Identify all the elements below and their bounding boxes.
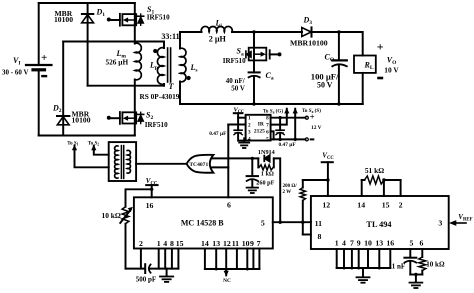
svg-text:1: 1	[157, 239, 161, 248]
label battery -	[41, 75, 47, 77]
power VCC (TL494 pin12)	[322, 162, 333, 196]
node: 260pF junction	[251, 157, 254, 160]
svg-text:10100: 10100	[54, 15, 73, 24]
svg-text:4: 4	[342, 238, 346, 247]
node: VCC branch	[150, 188, 153, 191]
svg-text:9: 9	[357, 238, 361, 247]
wire To S2 arrow	[91, 145, 108, 155]
svg-text:10 kΩ: 10 kΩ	[102, 211, 121, 220]
wire NC arrow	[224, 269, 229, 276]
ground (1nF/10k)	[410, 275, 423, 289]
svg-text:16: 16	[146, 201, 154, 210]
svg-text:3: 3	[248, 130, 251, 136]
svg-text:10: 10	[364, 238, 372, 247]
svg-text:To S1: To S1	[67, 142, 78, 147]
svg-text:0.47 µF: 0.47 µF	[279, 142, 297, 148]
svg-text:10: 10	[242, 239, 250, 248]
svg-text:+: +	[310, 111, 315, 121]
capacitor 1nF	[404, 249, 416, 275]
inductor Lm 526uH	[135, 43, 142, 80]
wire NC bus	[205, 268, 260, 270]
node: Sa source net	[294, 138, 297, 141]
wire MC pin2 stub	[140, 249, 142, 269]
wire top rail	[39, 2, 135, 4]
node: Ls polarity dot	[187, 76, 191, 80]
svg-text:2 µH: 2 µH	[209, 35, 227, 44]
wire MC pins 14-7 stubs	[205, 249, 260, 270]
ground (260pF)	[247, 188, 258, 193]
op-amp U4 TL494 PWM	[311, 196, 449, 249]
svg-text:+: +	[377, 40, 384, 54]
capacitor Co 100uF/50V	[332, 32, 347, 104]
svg-text:5: 5	[266, 136, 269, 142]
svg-text:+: +	[41, 52, 47, 64]
svg-text:1N914: 1N914	[258, 149, 275, 156]
svg-text:14: 14	[201, 239, 209, 248]
capacitor 0.47uF bypass	[234, 130, 242, 135]
wire 500pF left lead	[126, 268, 145, 270]
svg-text:4: 4	[163, 239, 167, 248]
label - output	[377, 77, 383, 80]
diode 1N914	[264, 155, 269, 161]
svg-text:15: 15	[176, 239, 184, 248]
svg-text:12: 12	[322, 201, 330, 210]
wire MC pin5 to TL494 pins 11/8	[273, 221, 311, 223]
svg-text:7: 7	[266, 123, 269, 129]
wire output bottom rail	[180, 103, 363, 105]
wire D3 to output	[312, 32, 363, 56]
resistor 1k	[258, 158, 274, 170]
wire IR2125 IN / pin6 bus	[227, 125, 229, 198]
battery VI 30-60V	[26, 3, 52, 136]
resistor 10k (TL494 pin6)	[419, 249, 426, 275]
resistor 10k pot	[120, 207, 133, 224]
svg-text:1: 1	[335, 238, 339, 247]
resistor 200ohm 2W	[300, 180, 305, 235]
wire node A (S1 source / Lp top)	[63, 41, 164, 43]
wire TL pins 1,4,7,9,10,13,16 stubs	[337, 249, 391, 268]
svg-text:1 kΩ: 1 kΩ	[261, 171, 274, 178]
gate-drive transformer box	[109, 142, 136, 181]
transistor S2 IRF510	[107, 112, 144, 124]
transistor S1 IRF510	[107, 14, 144, 26]
wire VCC to pin1	[238, 117, 246, 119]
transistor Sa IRF510	[253, 32, 255, 72]
svg-text:12: 12	[223, 239, 231, 248]
wire Li to D3	[232, 31, 302, 33]
svg-text:6: 6	[420, 238, 424, 247]
svg-text:RS 0P-43019: RS 0P-43019	[140, 92, 180, 101]
svg-text:2125: 2125	[254, 128, 265, 134]
wire S1/Lm/S2 column	[134, 3, 136, 44]
svg-text:NC: NC	[223, 278, 231, 284]
svg-text:12 V: 12 V	[311, 125, 322, 131]
wire left vertical	[62, 42, 64, 136]
wire network to TL494 outputs	[274, 158, 280, 222]
svg-text:16: 16	[386, 238, 394, 247]
svg-text:6: 6	[266, 130, 269, 136]
resistor 51k	[362, 176, 401, 196]
wire pin8 to +12V	[271, 117, 306, 119]
op-amp U TC4071 buffer gate	[187, 155, 214, 173]
power VCC (IR2125)	[234, 113, 243, 130]
svg-text:IR: IR	[258, 121, 265, 127]
wire pin6 tie	[271, 131, 274, 139]
svg-text:10 kΩ: 10 kΩ	[426, 261, 445, 269]
wire to Sa source	[293, 108, 298, 139]
svg-text:50 V: 50 V	[231, 85, 245, 93]
svg-text:8: 8	[170, 239, 174, 248]
svg-text:200 Ω/: 200 Ω/	[283, 184, 298, 189]
svg-text:1: 1	[248, 116, 251, 122]
gate-drive transformer secondary	[127, 150, 130, 173]
svg-text:To S2: To S2	[88, 142, 99, 147]
wire VCC to 10k pot	[126, 189, 152, 207]
node: bootstrap top	[278, 116, 281, 119]
wire OR gate input B	[212, 166, 228, 168]
svg-text:2: 2	[248, 123, 251, 129]
node: bootstrap bottom	[278, 138, 281, 141]
svg-text:14: 14	[357, 201, 365, 210]
svg-text:10 V: 10 V	[384, 66, 399, 75]
svg-text:IRF510: IRF510	[145, 121, 168, 129]
node: Co top junction	[337, 30, 340, 33]
node: Lp polarity dot	[153, 49, 157, 53]
svg-text:8: 8	[266, 116, 269, 122]
svg-text:5: 5	[261, 218, 265, 227]
svg-text:MBR10100: MBR10100	[290, 39, 328, 48]
svg-text:1 nF: 1 nF	[392, 262, 405, 270]
svg-text:30 - 60 V: 30 - 60 V	[2, 69, 29, 77]
node: Ca bottom junction	[252, 102, 255, 105]
svg-text:13: 13	[375, 238, 383, 247]
svg-text:10100: 10100	[72, 116, 91, 125]
ground (500pF)	[160, 269, 173, 282]
svg-text:50 V: 50 V	[317, 81, 333, 90]
diode D2 MBR10100	[57, 116, 69, 125]
capacitor 260pF	[247, 158, 258, 186]
svg-text:2 W: 2 W	[282, 190, 291, 195]
wire pot to pin2 line	[125, 224, 127, 269]
wire TL ground bus	[337, 267, 391, 269]
gate-drive transformer core	[120, 146, 122, 179]
svg-text:15: 15	[382, 201, 390, 210]
wire MC pins 1,4,8,15 stubs	[159, 249, 179, 269]
svg-text:11: 11	[315, 219, 322, 228]
wire pin7 to Sa gate	[271, 108, 290, 125]
wire OR gate input A	[211, 157, 258, 159]
ground (TL494)	[357, 268, 370, 283]
svg-text:260 pF: 260 pF	[256, 180, 274, 187]
wire bottom power rail	[39, 135, 135, 137]
diode D3 MBR10100	[302, 27, 312, 36]
label - 12V	[310, 138, 315, 140]
wire 200ohm to VCC	[303, 179, 328, 181]
svg-text:8: 8	[318, 232, 322, 241]
svg-text:500 pF: 500 pF	[136, 275, 156, 283]
wire pin4 to ground	[244, 138, 245, 142]
inductor Li 2uH	[201, 26, 232, 32]
svg-text:11: 11	[232, 239, 239, 248]
svg-text:2: 2	[399, 201, 403, 210]
svg-text:526 µH: 526 µH	[106, 57, 129, 66]
svg-text:5: 5	[410, 238, 414, 247]
capacitor 500pF	[145, 264, 150, 273]
transformer T secondary Ls	[179, 32, 181, 49]
svg-text:7: 7	[257, 239, 261, 248]
svg-text:9: 9	[250, 239, 254, 248]
svg-text:3: 3	[438, 218, 442, 227]
node: Sa drain junction	[252, 30, 255, 33]
svg-text:0.47 µF: 0.47 µF	[209, 131, 227, 137]
svg-text:IRF510: IRF510	[223, 57, 246, 65]
op-amp U3 MC14528B monostable	[134, 197, 273, 248]
svg-text:TL 494: TL 494	[366, 220, 391, 229]
diode D1 MBR10100	[82, 3, 94, 86]
transformer T primary Lp	[163, 42, 165, 49]
wire secondary top	[180, 31, 202, 33]
op-amp U2 IR2125 gate driver	[246, 115, 271, 141]
wire 500pF right lead / pins 1-15 bus	[150, 268, 179, 270]
svg-text:6: 6	[227, 201, 231, 210]
svg-text:51 kΩ: 51 kΩ	[365, 166, 384, 175]
power VCC (MC14528 pin16)	[146, 185, 157, 197]
resistor RL load box	[354, 56, 376, 73]
svg-text:13: 13	[212, 239, 220, 248]
transformer T core	[167, 48, 169, 82]
wire VREF arrow into pin3	[449, 220, 466, 226]
capacitor 0.47uF bootstrap	[276, 118, 284, 140]
wire transformer to OR gate output	[136, 163, 187, 165]
node: Co bottom junction	[337, 102, 340, 105]
svg-text:4: 4	[248, 136, 251, 142]
ground (IR2125)	[239, 143, 249, 148]
gate-drive transformer primary	[115, 146, 118, 178]
wire node B (D1 anode / Lp bottom)	[88, 85, 164, 87]
svg-text:2: 2	[139, 239, 143, 248]
wire 1nF/10k join	[410, 274, 422, 276]
capacitor Ca 40nF/50V	[249, 72, 260, 104]
svg-text:IRF510: IRF510	[147, 13, 170, 21]
svg-text:7: 7	[350, 238, 354, 247]
wire pin8 stub	[303, 234, 311, 236]
svg-text:33:11: 33:11	[161, 32, 179, 41]
svg-text:TC4071: TC4071	[189, 162, 208, 168]
wire To S1 arrow	[72, 145, 109, 168]
svg-text:MC 14528 B: MC 14528 B	[181, 219, 224, 228]
wire pin5 to -12V	[271, 138, 306, 140]
